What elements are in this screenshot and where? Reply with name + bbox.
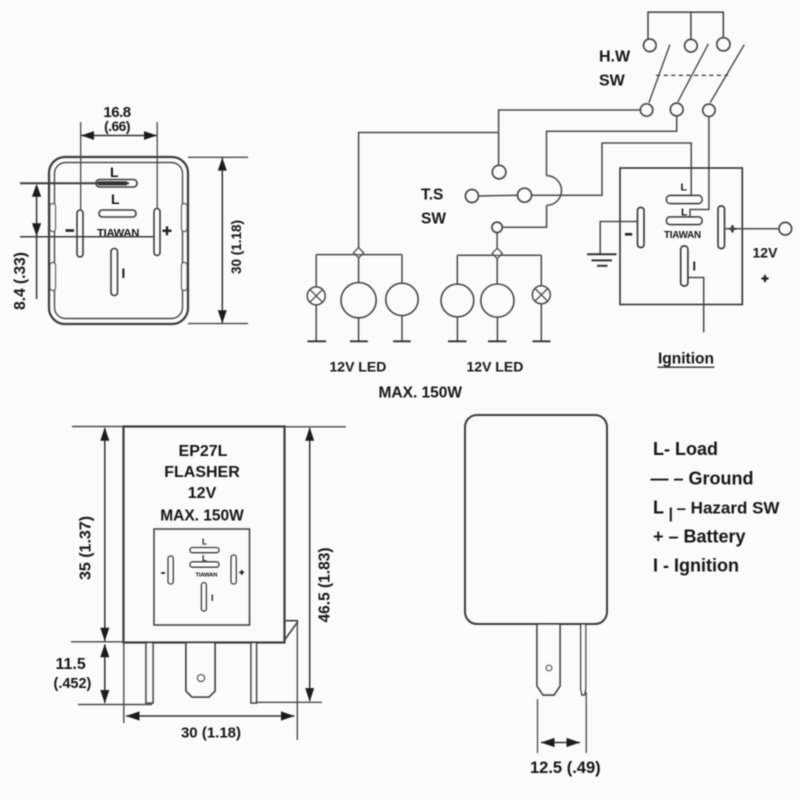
wire drop to left lamp 2 — [401, 255, 403, 284]
bottom pin slot (ignition) — [111, 249, 118, 296]
svg-text:46.5 (1.83): 46.5 (1.83) — [317, 548, 334, 623]
svg-text:11.5: 11.5 — [56, 656, 86, 673]
right ground tick 2 — [488, 340, 507, 342]
relay box — [620, 168, 742, 305]
left indicator tail wire — [315, 305, 317, 341]
T.S switch top contact — [492, 165, 506, 179]
relay minus symbol — [625, 233, 632, 236]
mini slot L2 — [190, 562, 219, 567]
dim 11.5 bottom extension line — [78, 704, 152, 706]
T.S switch middle contact — [518, 188, 532, 202]
svg-text:L: L — [653, 498, 664, 518]
mini left slot — [168, 556, 173, 584]
right pin slot (plus) — [154, 209, 160, 256]
wire: hazard contact3 down to relay L2 — [690, 117, 709, 218]
front view left pin — [146, 643, 153, 704]
svg-text:+ – Battery: + – Battery — [653, 527, 746, 547]
svg-text:EP27L: EP27L — [179, 443, 228, 460]
relay body front view — [124, 427, 285, 643]
svg-text:TIAWAN: TIAWAN — [196, 573, 218, 579]
svg-text:I: I — [693, 260, 696, 274]
dim 16.8 dimension line with arrows — [81, 135, 157, 137]
front view right pin — [251, 643, 257, 704]
svg-text:L- Load: L- Load — [653, 439, 718, 459]
hazard bus stub 2 — [690, 12, 692, 39]
left ground tick 3 — [393, 340, 411, 342]
dim 30 bottom extension line — [188, 323, 248, 325]
svg-text:12V LED: 12V LED — [330, 359, 387, 375]
dim 46.5 bottom extension line — [257, 701, 323, 703]
hazard switch upper contact 2 — [685, 39, 698, 52]
hazard switch lever 2 — [678, 44, 709, 102]
svg-text:(.452): (.452) — [54, 676, 92, 692]
dim 8.4 vertical line with arrows — [36, 186, 38, 299]
wire drop to left indicator — [315, 255, 317, 287]
wire: minus slot to ground — [600, 222, 637, 254]
left lamp 2 tail wire — [401, 316, 403, 342]
left ground tick 1 — [307, 340, 326, 342]
T.S switch left contact — [465, 190, 478, 203]
side view wide pin with hole — [537, 624, 560, 695]
dark bar inside slot L1 — [98, 181, 127, 185]
svg-text:(.66): (.66) — [104, 119, 130, 134]
right indicator lamp (circle-X) — [532, 286, 550, 304]
left edge slot lower — [50, 263, 56, 291]
svg-text:T.S: T.S — [421, 187, 443, 204]
svg-text:I: I — [211, 593, 214, 603]
svg-text:8.4 (.33): 8.4 (.33) — [12, 252, 29, 310]
hazard switch lever 3 — [710, 45, 744, 103]
hazard switch lower contact 3 — [703, 104, 715, 116]
wire drop to right lamp 2 — [496, 258, 498, 283]
hazard switch top bus wire — [648, 12, 723, 39]
right ground tick 1 — [448, 340, 467, 342]
relay bottom-view housing outer outline — [49, 157, 188, 324]
pin layout panel — [154, 529, 250, 625]
minus symbol — [66, 229, 75, 232]
mounting flange tick — [285, 620, 299, 622]
left lamp junction node — [354, 248, 364, 258]
wire: plus slot to 12V terminal — [725, 228, 780, 230]
dim 35 top extension line — [72, 426, 124, 428]
dim 30 vertical line with arrows — [221, 158, 223, 323]
mini right slot — [231, 555, 236, 584]
relay left slot (minus) — [638, 208, 645, 248]
right edge slot upper — [182, 204, 188, 232]
svg-text:H.W: H.W — [599, 49, 631, 66]
svg-text:12V: 12V — [753, 245, 779, 261]
right lamp 1 — [441, 284, 474, 317]
right lamp 2 tail wire — [496, 317, 498, 341]
svg-text:L: L — [110, 164, 119, 180]
svg-text:I - Ignition: I - Ignition — [653, 556, 739, 576]
wire: ignition slot down — [688, 278, 704, 333]
wire drop to left lamp 1 — [358, 258, 360, 283]
svg-text:SW: SW — [599, 73, 626, 90]
extension line through slot L1 (8.4 dim upper reference) — [20, 182, 129, 184]
svg-text:— – Ground: — – Ground — [651, 469, 754, 489]
dim 16.8 right extension line — [156, 122, 158, 208]
hazard switch mechanical link (dashed) — [656, 74, 728, 76]
ground symbol — [587, 253, 617, 255]
left ground tick 2 — [350, 340, 368, 342]
left indicator lamp (circle-X) — [307, 287, 325, 305]
right edge slot lower — [182, 263, 188, 291]
svg-text:SW: SW — [421, 211, 446, 228]
right indicator tail wire — [540, 304, 542, 342]
mini minus symbol — [161, 572, 165, 574]
right lamp 1 tail wire — [456, 317, 458, 341]
dim 35 bottom extension line — [71, 641, 124, 643]
svg-text:12.5 (.49): 12.5 (.49) — [530, 759, 601, 777]
svg-text:Ignition: Ignition — [658, 351, 714, 368]
mini slot L1 — [190, 548, 219, 553]
svg-text:FLASHER: FLASHER — [164, 464, 240, 481]
hazard switch upper contact 1 — [644, 39, 657, 52]
svg-text:L: L — [202, 538, 207, 547]
left lamp 1 tail wire — [358, 318, 360, 342]
wire: left lamp feed down — [359, 133, 499, 249]
mini bottom slot — [201, 583, 206, 612]
left edge slot upper — [50, 204, 56, 232]
left lamp 1 — [341, 283, 376, 318]
12V terminal circle — [779, 222, 792, 235]
hazard switch lower contact 1 — [640, 104, 652, 116]
right lamp bus wire — [457, 254, 541, 256]
wire: hazard contact1 to T.S top contact — [499, 110, 641, 165]
relay body side view — [465, 415, 607, 624]
relay slot L1 — [667, 196, 703, 204]
relay slot L2 — [667, 217, 703, 225]
Ignition underline — [658, 366, 715, 368]
left lamp 2 — [386, 283, 418, 315]
pin slot L1 (top horizontal) — [96, 180, 137, 188]
svg-text:– Hazard SW: – Hazard SW — [677, 499, 781, 518]
side view thin pin — [581, 624, 586, 695]
T.S switch bottom contact — [492, 222, 502, 232]
extension line (8.4 dim lower reference / TIAWAN line) — [20, 236, 154, 238]
relay bottom-view housing inner outline — [55, 163, 183, 319]
svg-text:12V: 12V — [188, 485, 217, 502]
relay bottom slot (ignition) — [681, 246, 688, 286]
dim 12.5 right extension line — [585, 692, 587, 753]
hazard switch lower contact 2 — [670, 103, 683, 116]
wire: left contact to middle contact — [478, 194, 517, 197]
dim 30 right extension line — [296, 621, 298, 740]
svg-text:30 (1.18): 30 (1.18) — [229, 220, 244, 274]
pin slot L2 (second horizontal) — [99, 210, 136, 217]
mini plus symbol — [239, 571, 244, 573]
wire: middle contact to relay L1 — [532, 143, 692, 196]
dim 35 vertical line with arrows — [104, 428, 106, 641]
svg-text:I: I — [122, 266, 126, 281]
dim 46.5 top extension line — [285, 426, 347, 428]
dim 30 top extension line — [188, 156, 248, 158]
wire: hazard contact2 down — [547, 116, 677, 176]
relay plus symbol — [729, 228, 736, 230]
wire drop to right indicator — [540, 255, 542, 286]
right ground tick 3 — [533, 340, 551, 342]
relay right slot (plus) — [718, 206, 725, 249]
svg-text:35 (1.37): 35 (1.37) — [78, 516, 95, 580]
dim 16.8 left extension line — [80, 122, 82, 210]
svg-text:L: L — [681, 182, 688, 194]
dim 30 dimension line with arrows — [126, 715, 295, 717]
svg-text:12V LED: 12V LED — [467, 359, 524, 375]
dim 12.5 left extension line — [537, 699, 539, 753]
wire: lever arc to bottom contact — [502, 205, 546, 227]
right lamp 2 — [481, 284, 514, 317]
dim 11.5 vertical line with arrows — [104, 645, 106, 704]
dim 30 left extension line — [123, 643, 125, 723]
svg-text:L: L — [111, 191, 120, 207]
svg-text:30 (1.18): 30 (1.18) — [181, 725, 241, 742]
dim 12.5 dimension line with arrows — [541, 742, 580, 744]
svg-text:TIAWAN: TIAWAN — [97, 228, 139, 240]
dim 46.5 vertical line with arrows — [309, 428, 311, 701]
wire drop to right lamp 1 — [456, 255, 458, 284]
hazard switch lever 1 — [649, 45, 670, 103]
plus symbol under 12V — [762, 277, 769, 279]
right lamp junction node — [492, 248, 502, 258]
left lamp bus wire — [316, 254, 402, 256]
plus symbol — [163, 230, 172, 232]
front view middle pin with hole — [186, 643, 215, 698]
svg-text:TIAWAN: TIAWAN — [664, 230, 701, 241]
left pin slot (minus) — [77, 210, 83, 257]
svg-text:MAX. 150W: MAX. 150W — [379, 385, 463, 402]
hazard switch upper contact 3 — [717, 38, 730, 51]
wire: bottom contact down to right lamp junction — [496, 233, 498, 249]
mounting flange chamfer — [285, 621, 298, 640]
svg-text:MAX. 150W: MAX. 150W — [160, 508, 244, 525]
T.S switch lever arc — [547, 176, 562, 206]
